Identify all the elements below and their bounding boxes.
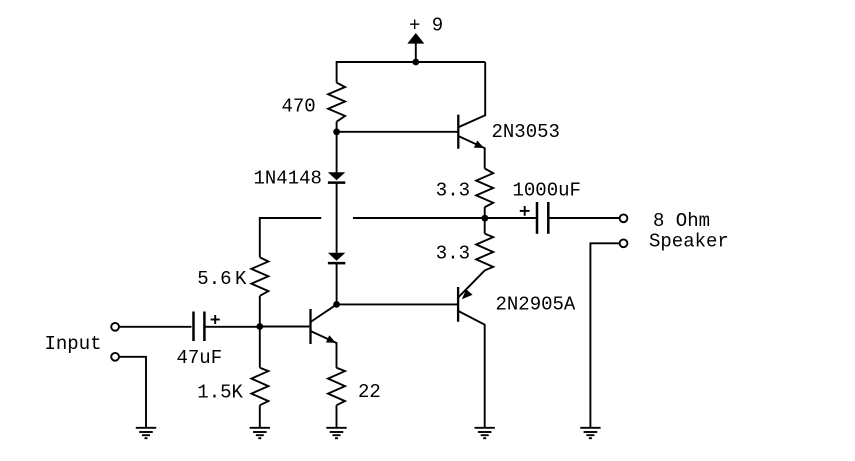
capacitor C2 1000uF plus <box>520 210 530 212</box>
resistor 470 <box>328 83 345 122</box>
wire R3.3 to output node <box>484 207 486 218</box>
wire cap to input base node <box>204 326 259 328</box>
wire rail to R470 <box>336 61 338 83</box>
svg-text:1N4148: 1N4148 <box>254 168 322 190</box>
svg-text:470: 470 <box>282 96 316 118</box>
arrow Q3 emitter <box>462 289 473 299</box>
junction input base node <box>256 323 263 330</box>
terminal input top <box>111 323 119 331</box>
capacitor C1 plus <box>211 319 220 321</box>
ground R1.5K <box>250 428 270 438</box>
transistor Q3 2N2905A bar <box>457 287 459 322</box>
wire cap to speaker terminal <box>548 217 619 219</box>
svg-text:1.5K: 1.5K <box>197 381 243 403</box>
wire R5.6K to input node <box>259 296 261 327</box>
wire R22 to ground <box>336 405 338 428</box>
wire output node to cap <box>353 217 536 219</box>
wire base node to diode D1 <box>336 132 338 173</box>
junction output node <box>482 215 489 222</box>
resistor R3.3 bottom <box>484 218 486 234</box>
junction base node <box>333 128 340 135</box>
resistor R3.3 top <box>476 169 493 208</box>
arrow Q1 emitter <box>326 335 336 342</box>
wire Q3 base <box>337 303 457 305</box>
wire feedback segment <box>260 218 321 257</box>
svg-text:1000uF: 1000uF <box>513 180 581 202</box>
svg-text:47uF: 47uF <box>177 347 223 369</box>
wire Q1 emitter <box>311 331 337 368</box>
svg-text:8 Ohm: 8 Ohm <box>653 210 710 232</box>
wire D2 to collector node <box>336 263 338 304</box>
svg-text:2N2905A: 2N2905A <box>496 294 576 316</box>
resistor R1.5K <box>259 327 261 368</box>
capacitor C2 1000uF <box>536 202 539 234</box>
terminal input bottom <box>111 353 119 361</box>
svg-text:K: K <box>235 268 247 290</box>
svg-text:+ 9: + 9 <box>409 15 443 37</box>
resistor R22 <box>328 368 345 406</box>
svg-text:5.6: 5.6 <box>197 268 231 290</box>
ground speaker return <box>580 428 600 438</box>
terminal speaker top <box>620 214 628 222</box>
wire D1 to D2 <box>336 183 338 253</box>
ground Q3 collector <box>475 428 495 438</box>
capacitor C1 47uF <box>192 312 195 342</box>
wire Q2 emitter <box>458 136 484 169</box>
wire Q3 emitter <box>458 270 485 297</box>
svg-text:2N3053: 2N3053 <box>492 121 560 143</box>
wire R1.5K to ground <box>259 405 261 428</box>
transistor Q1 input bar <box>309 309 311 344</box>
wire input bottom to ground <box>119 357 146 428</box>
svg-text:Input: Input <box>45 333 102 355</box>
wire Q2 collector <box>458 62 485 127</box>
wire supply arrow stem <box>415 42 417 62</box>
wire Q1 base <box>260 326 310 328</box>
wire R470 to base node <box>336 122 338 132</box>
transistor Q2 2N3053 bar <box>457 115 459 149</box>
svg-text:Speaker: Speaker <box>649 230 729 252</box>
ground input <box>136 428 156 438</box>
svg-text:3.3: 3.3 <box>436 180 470 202</box>
wire input to cap <box>119 326 191 328</box>
svg-text:22: 22 <box>358 381 381 403</box>
junction collector node <box>333 301 340 308</box>
diode D1 1N4148 <box>328 172 345 180</box>
wire Q1 collector <box>311 304 337 322</box>
svg-text:3.3: 3.3 <box>436 242 470 264</box>
terminal speaker bottom <box>620 239 628 247</box>
wire top rail <box>337 61 486 63</box>
wire Q3 collector <box>458 311 485 428</box>
resistor R5.6K <box>251 257 268 295</box>
wire base node to Q2 base <box>337 131 458 133</box>
arrow Q2 emitter <box>474 141 484 148</box>
diode D2 1N4148 <box>328 253 345 261</box>
ground R22 <box>326 428 346 438</box>
wire speaker return <box>590 243 619 427</box>
power arrow +9 <box>407 33 424 44</box>
junction supply rail <box>412 59 419 66</box>
